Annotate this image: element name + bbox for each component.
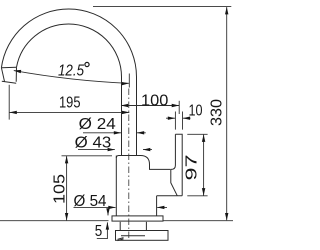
- arrow 97 top: [202, 134, 205, 142]
- 12.5 dimension arc: [14, 71, 129, 84]
- spout tip left side: [1, 68, 4, 82]
- arrow 5 bottom: [106, 222, 109, 230]
- arrow O54 right: [157, 206, 165, 209]
- spout tip face: [2, 81, 16, 83]
- svg-text:195: 195: [59, 95, 81, 112]
- body right chamfer: [171, 169, 178, 195]
- 195 left extension: [8, 85, 10, 120]
- shank inner line: [121, 235, 145, 237]
- 5 dimension top tail: [107, 209, 109, 216]
- arrow 100 right: [172, 104, 180, 107]
- spout tip seam: [1, 66, 16, 69]
- svg-text:105: 105: [52, 174, 69, 204]
- 97 top extension: [187, 133, 207, 135]
- centerline: [128, 89, 130, 240]
- arrow O24 right: [137, 131, 145, 134]
- 10 extension lines: [175, 112, 182, 130]
- arrow 105 bottom: [65, 213, 68, 221]
- arrow 195 left: [9, 111, 16, 114]
- 10 dimension tails: [166, 117, 191, 119]
- svg-text:330: 330: [209, 99, 226, 126]
- spout inner arc: [17, 24, 122, 156]
- 97 bottom extension: [187, 195, 207, 197]
- arrow O43 right: [143, 148, 151, 151]
- body left edge: [115, 156, 117, 216]
- body top outline: [116, 156, 170, 170]
- svg-text:10: 10: [189, 102, 203, 119]
- flange: [112, 216, 163, 221]
- svg-text:97: 97: [184, 154, 201, 180]
- arrow O43 left: [108, 148, 116, 151]
- neck right edge: [156, 196, 158, 216]
- 97 dimension line: [203, 135, 205, 196]
- arrow O54 left: [108, 206, 116, 209]
- countertop extension left: [0, 220, 109, 222]
- 330 dimension line: [226, 7, 228, 220]
- 105 dimension line: [66, 156, 68, 220]
- shank box: [116, 231, 169, 241]
- arrow O24 left: [114, 131, 122, 134]
- centerline solid head / 12.5 reference: [128, 74, 130, 88]
- top extension line: [93, 6, 231, 8]
- arrow 195 right: [122, 111, 130, 114]
- tailpiece: [120, 222, 146, 231]
- 105 top extension: [62, 155, 113, 157]
- countertop extension right: [164, 220, 234, 222]
- svg-text:Ø 54: Ø 54: [74, 193, 107, 210]
- arrow 105 top: [65, 156, 68, 164]
- arrow 10 right: [183, 117, 191, 120]
- spout outer arc: [1, 9, 136, 156]
- arrow 330 top: [225, 7, 228, 14]
- arrow 330 bottom: [225, 213, 228, 221]
- arrow 97 bottom: [202, 188, 205, 196]
- degree mark: [85, 62, 89, 66]
- O54 dimension line: [74, 206, 168, 208]
- 100 dimension line: [121, 105, 179, 107]
- svg-text:12.5: 12.5: [58, 62, 84, 79]
- arrow 10 left: [168, 117, 176, 120]
- svg-text:Ø 43: Ø 43: [75, 134, 112, 151]
- arrow 12.5 left: [14, 70, 22, 73]
- 100 right extension: [178, 101, 180, 114]
- svg-text:100: 100: [141, 92, 168, 109]
- 195 dimension line: [10, 111, 130, 113]
- O43 dimension line: [78, 149, 152, 151]
- svg-text:5: 5: [95, 223, 103, 240]
- svg-text:Ø 24: Ø 24: [79, 116, 116, 133]
- spout tip right side: [15, 67, 17, 82]
- thread marks: [118, 238, 124, 241]
- lever handle top and right: [175, 134, 182, 196]
- lever handle left: [171, 134, 175, 169]
- arrow 5 top: [106, 208, 109, 216]
- body bottom: [157, 195, 183, 197]
- arrow 12.5 right: [122, 82, 130, 85]
- O24 dimension line: [83, 132, 146, 134]
- arrow 100 left: [121, 104, 129, 107]
- 5 dimension bottom tail and leader: [97, 222, 108, 238]
